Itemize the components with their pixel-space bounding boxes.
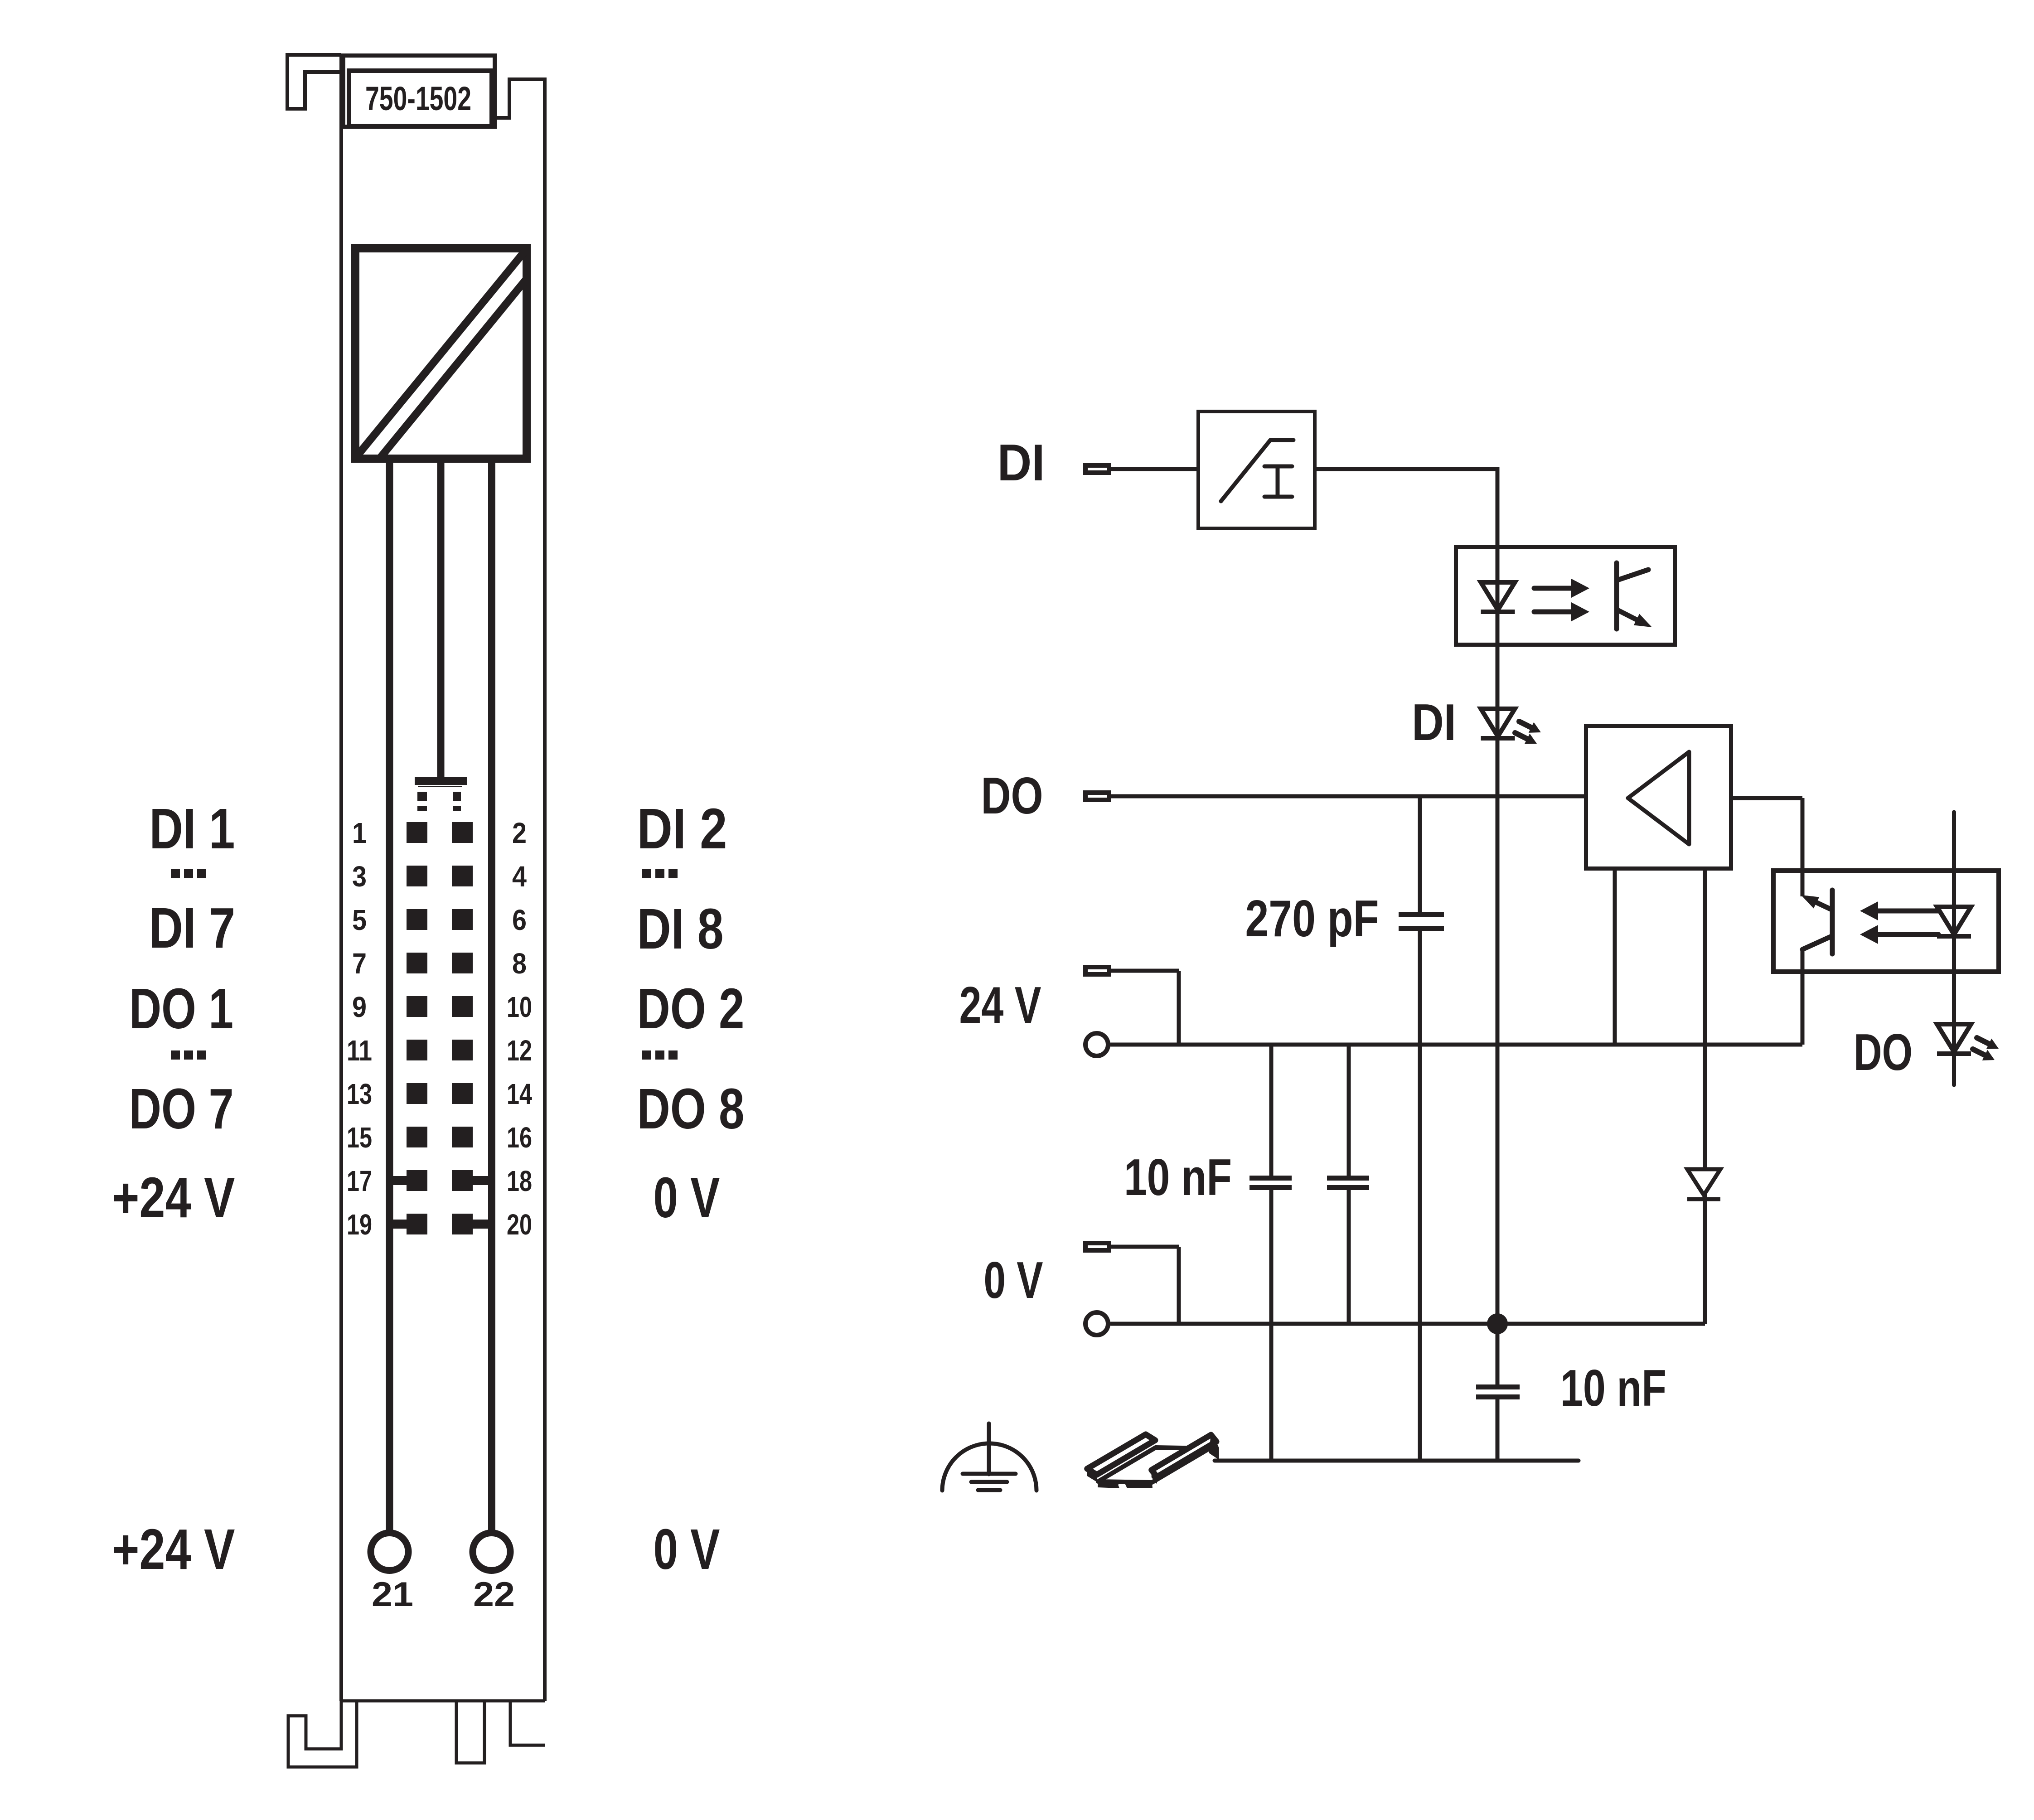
svg-text:DI 7: DI 7 — [149, 896, 235, 960]
svg-text:19: 19 — [347, 1208, 372, 1241]
svg-text:21: 21 — [372, 1575, 413, 1614]
svg-text:3: 3 — [352, 860, 367, 893]
svg-text:4: 4 — [512, 860, 527, 893]
svg-text:17: 17 — [347, 1165, 372, 1197]
svg-text:DO 8: DO 8 — [637, 1077, 745, 1141]
svg-text:16: 16 — [507, 1121, 532, 1154]
svg-text:13: 13 — [347, 1078, 372, 1110]
svg-text:DO 1: DO 1 — [129, 977, 233, 1041]
svg-text:10 nF: 10 nF — [1560, 1360, 1666, 1417]
svg-text:15: 15 — [347, 1121, 372, 1154]
svg-text:5: 5 — [352, 904, 367, 936]
svg-text:20: 20 — [507, 1208, 532, 1241]
svg-text:DI: DI — [998, 434, 1045, 492]
svg-text:11: 11 — [347, 1034, 372, 1067]
svg-text:270 pF: 270 pF — [1245, 890, 1379, 948]
svg-text:10 nF: 10 nF — [1124, 1149, 1232, 1206]
svg-text:DO 7: DO 7 — [129, 1077, 234, 1141]
svg-text:7: 7 — [352, 947, 367, 980]
svg-text:14: 14 — [507, 1078, 532, 1110]
svg-text:DI 8: DI 8 — [637, 897, 724, 961]
svg-text:+24 V: +24 V — [112, 1517, 235, 1581]
svg-text:+24 V: +24 V — [112, 1166, 235, 1229]
svg-text:2: 2 — [512, 817, 527, 849]
svg-text:750-1502: 750-1502 — [365, 80, 471, 117]
svg-text:DO: DO — [1854, 1024, 1913, 1081]
svg-text:24 V: 24 V — [959, 977, 1041, 1034]
svg-text:0 V: 0 V — [654, 1166, 720, 1229]
svg-text:DO 2: DO 2 — [637, 977, 745, 1041]
svg-text:18: 18 — [507, 1165, 532, 1197]
svg-text:1: 1 — [352, 817, 367, 849]
svg-text:10: 10 — [507, 991, 532, 1023]
svg-text:22: 22 — [473, 1575, 515, 1614]
svg-text:DI: DI — [1412, 694, 1456, 751]
svg-text:9: 9 — [352, 991, 367, 1023]
svg-text:8: 8 — [512, 947, 527, 980]
svg-text:0 V: 0 V — [654, 1517, 720, 1581]
svg-text:DI 1: DI 1 — [150, 797, 235, 861]
svg-text:DO: DO — [981, 767, 1043, 825]
svg-text:DI 2: DI 2 — [637, 797, 727, 861]
svg-text:12: 12 — [507, 1034, 532, 1067]
svg-text:0 V: 0 V — [984, 1252, 1043, 1309]
svg-text:6: 6 — [512, 904, 527, 936]
